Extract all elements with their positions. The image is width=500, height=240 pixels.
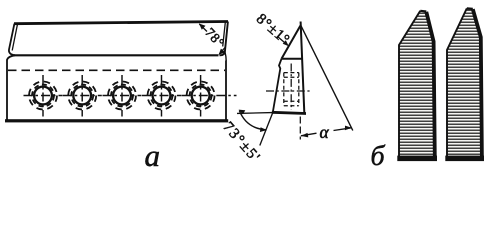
svg-text:α: α xyxy=(320,122,330,142)
svg-text:73°±5': 73°±5' xyxy=(219,119,263,166)
svg-text:а: а xyxy=(145,138,161,173)
svg-text:б: б xyxy=(371,141,386,172)
svg-text:8°±1°: 8°±1° xyxy=(253,11,293,48)
